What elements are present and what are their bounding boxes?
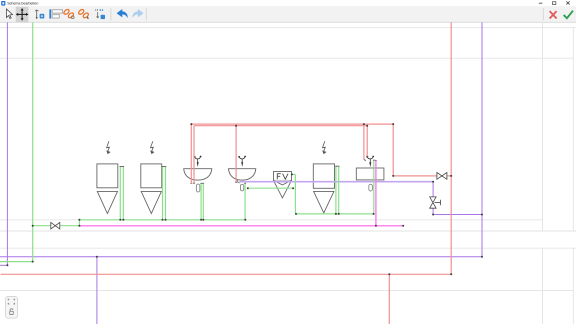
- wire purple vertical x482: [481, 22, 483, 256]
- node silo3 b: [338, 213, 340, 215]
- silo 1: [97, 164, 118, 214]
- toolbar: add node tool: [35, 10, 44, 19]
- node green bottom left corner: [32, 261, 34, 263]
- toolbar: cursor tool: [6, 9, 12, 19]
- wire red drop mixer a: [363, 124, 365, 160]
- capsule dome 2: [241, 184, 244, 191]
- lightning arrow silo 1: [107, 141, 111, 153]
- node purple pipe end: [432, 181, 434, 183]
- FV unit: [274, 172, 292, 198]
- node purple y257 right: [481, 256, 483, 258]
- title bar: [0, 0, 576, 6]
- toolbar: align tool: [49, 9, 62, 18]
- node purple x97: [96, 256, 98, 258]
- node red B right: [366, 125, 368, 127]
- wire red horizontal bottom: [1, 273, 452, 275]
- valve V3 (green line): [51, 222, 60, 229]
- wire FV drop vertical: [294, 174, 296, 214]
- wire red drop dome1 b: [193, 126, 195, 183]
- node red valve corner: [392, 175, 394, 177]
- bottom-left panel: [6, 297, 18, 319]
- wire purple stub bottom left: [0, 264, 7, 266]
- frame line v1 lower: [542, 248, 544, 324]
- node magenta mixer: [375, 225, 377, 227]
- silo 3: [313, 164, 334, 213]
- frame line h6: [0, 290, 573, 292]
- node bus2 left: [295, 213, 297, 215]
- node green valve left: [32, 225, 34, 227]
- wire purple horizontal y214: [433, 214, 482, 216]
- node purple y214 left: [432, 214, 434, 216]
- node red A mid: [363, 123, 365, 125]
- wire silo1 drop a: [119, 167, 121, 220]
- node red bottom corner: [450, 273, 452, 275]
- wire silo3 drop a: [335, 167, 337, 214]
- wire dome1 drop a: [200, 184, 202, 220]
- node red A right: [392, 123, 394, 125]
- toolbar: unlink tool: [78, 9, 90, 19]
- maximize button: [553, 2, 556, 5]
- frame line v2 upper: [572, 28, 574, 231]
- minimize button: [539, 2, 543, 4]
- wire FV elbow horizontal: [292, 173, 296, 175]
- node magenta end: [402, 225, 404, 227]
- wire purple valve stem lower: [432, 208, 434, 214]
- wire red header B: [194, 125, 367, 127]
- wire red header A: [191, 123, 393, 125]
- node FV elbow: [291, 173, 293, 175]
- node dome2 out right: [292, 187, 294, 189]
- sprinkler dome 1: [194, 156, 202, 167]
- wire magenta bus: [79, 225, 403, 227]
- dome 2: [229, 169, 256, 180]
- wire dome2 outlet horizontal: [248, 187, 293, 189]
- toolbar: undo: [117, 9, 128, 18]
- node red B dome2: [235, 125, 237, 127]
- wire green bus 2: [295, 213, 373, 215]
- toolbar: paste-node tool: [96, 9, 105, 19]
- toolbar: link tool: [63, 9, 74, 19]
- wire purple vertical left: [6, 22, 8, 265]
- node green riser top: [78, 219, 80, 221]
- wire purple horizontal bottom: [0, 256, 482, 258]
- wire purple valve stem upper: [432, 182, 434, 197]
- wire dome2 drop: [244, 184, 246, 220]
- wire red vertical x389: [388, 274, 390, 324]
- sprinkler dome 2: [238, 156, 246, 167]
- wire dome1 drop b: [202, 184, 204, 220]
- wire silo1 drop b: [122, 167, 124, 220]
- wire silo2 drop b: [165, 167, 167, 220]
- capsule mixer: [369, 184, 373, 191]
- toolbar background: [0, 6, 576, 22]
- node red bottom x389: [388, 273, 390, 275]
- wire green riser x79: [78, 220, 80, 226]
- dome 1: [184, 169, 212, 180]
- lightning arrow silo 2: [151, 141, 155, 153]
- node green riser bottom: [78, 225, 80, 227]
- node silo3 a: [335, 213, 337, 215]
- app icon: [1, 1, 5, 6]
- sprinkler mixer: [366, 156, 374, 168]
- frame line h2: [0, 57, 573, 59]
- close button: [566, 1, 569, 4]
- node silo2 b: [165, 219, 167, 221]
- wire red valve line: [393, 175, 451, 177]
- lightning arrow silo 3: [323, 141, 327, 153]
- wire green valve line: [33, 225, 80, 227]
- node bus1 end: [244, 219, 246, 221]
- toolbar: redo (disabled): [133, 9, 144, 18]
- node dome2 out left: [247, 187, 249, 189]
- wire red vertical long: [450, 22, 452, 274]
- wire magenta vertical: [375, 161, 377, 226]
- node dome1 b: [202, 219, 204, 221]
- wire green bus 1: [79, 219, 245, 221]
- frame line h3: [0, 219, 543, 221]
- wire mixer green drop: [373, 161, 375, 214]
- valve V2 with handle (purple line): [430, 197, 441, 208]
- node silo1 a: [119, 219, 121, 221]
- confirm button (green check): [564, 11, 573, 19]
- frame line h4: [0, 230, 576, 232]
- node silo1 b: [122, 219, 124, 221]
- node purple bottom left corner: [6, 264, 8, 266]
- node dome1 a: [200, 219, 202, 221]
- dome 2 outlet hook: [237, 180, 239, 183]
- mixer unit: [356, 168, 384, 180]
- capsule dome 1: [196, 184, 199, 192]
- wire red drop mixer b: [366, 126, 368, 157]
- wire red drop dome2: [235, 126, 237, 182]
- cancel button (red X): [550, 11, 557, 18]
- toolbar: move tool (selected): [16, 7, 29, 23]
- node red A left: [190, 123, 192, 125]
- pipe purple main horizontal: [239, 181, 433, 183]
- FV label: [277, 174, 288, 180]
- wire silo3 drop b: [338, 167, 340, 214]
- node purple y214 right: [481, 214, 483, 216]
- frame line v1 upper: [542, 22, 544, 231]
- frame line h5: [0, 247, 576, 249]
- wire silo2 drop a: [162, 167, 164, 220]
- valve V1 (red line): [437, 173, 447, 180]
- pipe end caps: [120, 156, 369, 183]
- frame line v2 lower: [572, 248, 574, 324]
- node silo2 a: [162, 219, 164, 221]
- svg-text:Schema bearbeiten: Schema bearbeiten: [7, 2, 38, 6]
- node red valve junction: [450, 175, 452, 177]
- node bus2 right: [373, 213, 375, 215]
- wire green elbow bottom left: [0, 261, 33, 263]
- silo 2: [141, 164, 162, 214]
- wire green vertical left: [32, 22, 34, 261]
- wire red drop valve: [392, 124, 394, 176]
- frame line h1: [0, 27, 576, 29]
- wire red drop dome1 a: [190, 124, 192, 183]
- wire purple vertical x97: [96, 257, 98, 324]
